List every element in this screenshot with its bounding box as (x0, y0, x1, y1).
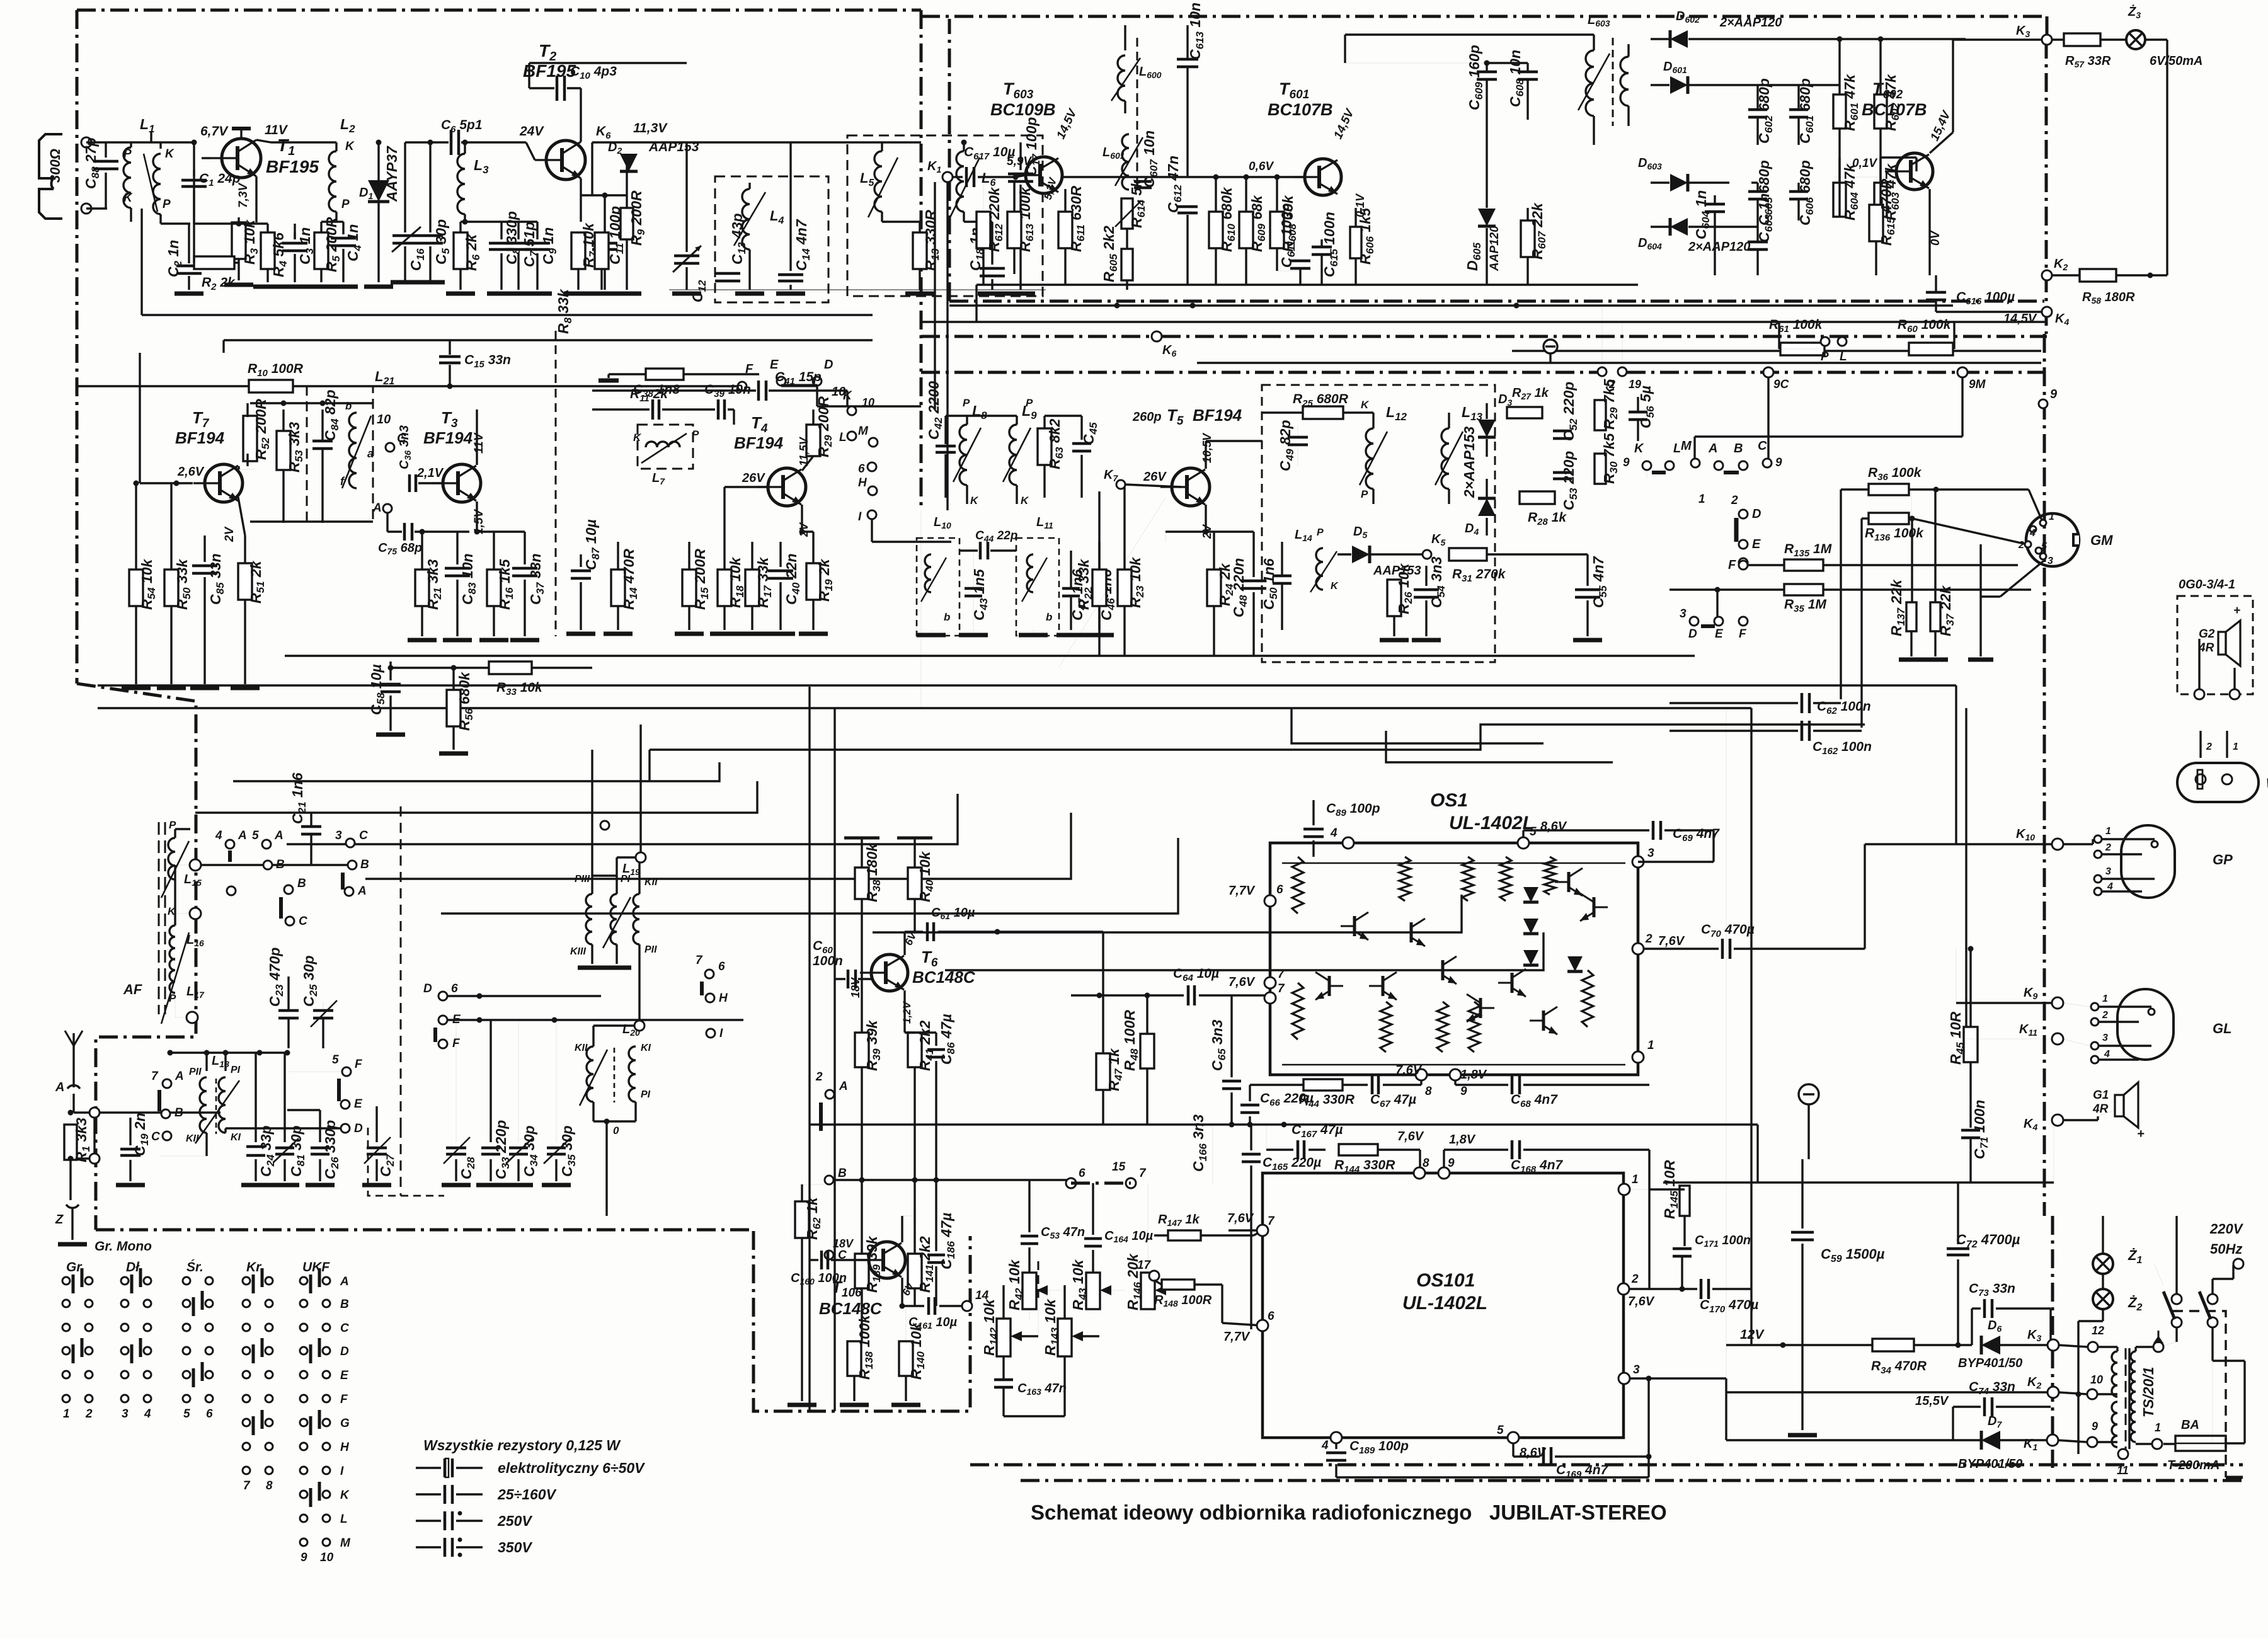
K4 terminal right (2042, 307, 2052, 317)
C41 15p (757, 381, 760, 401)
svg-text:A: A (175, 1070, 184, 1083)
C189 100p (1335, 1443, 1337, 1449)
svg-text:300Ω: 300Ω (47, 149, 63, 183)
OS1 box (1270, 843, 1638, 1075)
R609 68k (1239, 212, 1253, 248)
node base row (193, 142, 195, 224)
svg-text:K: K (1361, 399, 1370, 411)
C611 100n (1290, 260, 1310, 263)
vertical gnd wire (1979, 544, 1981, 656)
contacts D 6 E F col (438, 992, 447, 1000)
L21 coil (349, 413, 357, 488)
svg-text:Schemat ideowy odbiornika radi: Schemat ideowy odbiornika radiofoniczneg… (1031, 1501, 1667, 1524)
svg-text:C85 33n: C85 33n (207, 553, 226, 605)
svg-text:PII: PII (644, 944, 657, 955)
T3 base cap C36 3n3 (408, 474, 411, 492)
OS101 pin1 (1618, 1184, 1630, 1195)
svg-text:R44 330R: R44 330R (1299, 1092, 1355, 1109)
wires L8L9 (966, 416, 968, 425)
dashed box around C27 (368, 1128, 444, 1196)
C72 4700u (1957, 1183, 1959, 1244)
transistor T4 BF194 (757, 468, 806, 506)
svg-text:R39 39k: R39 39k (864, 1019, 883, 1071)
lamp Z3 (2126, 30, 2145, 49)
svg-text:R601 47k: R601 47k (1841, 74, 1860, 131)
wire to K10 (1864, 844, 1865, 949)
svg-text:17: 17 (1137, 1259, 1152, 1272)
C53 47n (1028, 1180, 1030, 1232)
long bus B (98, 684, 1956, 686)
svg-text:A: A (55, 1080, 64, 1094)
C54 3n3 (1425, 566, 1427, 586)
transistor T3 BF194 (432, 464, 481, 502)
svg-text:B: B (175, 1106, 183, 1120)
svg-text:P: P (1026, 397, 1033, 409)
OS1 pin9 (1450, 1069, 1461, 1080)
mid junction (186, 1012, 198, 1023)
svg-text:D: D (423, 982, 432, 995)
transformer TS-20-1 (2088, 1342, 2098, 1352)
svg-text:25÷160V: 25÷160V (497, 1486, 557, 1503)
R603 47k (1874, 183, 1887, 217)
bottom dash right (2226, 1476, 2243, 1479)
R26 10k (1387, 580, 1401, 616)
svg-text:K: K (1634, 442, 1644, 455)
C171 100n (1673, 1247, 1692, 1251)
svg-text:C160 100n: C160 100n (791, 1271, 847, 1286)
svg-text:BA: BA (2181, 1418, 2199, 1432)
svg-text:C164 10µ: C164 10µ (1104, 1229, 1154, 1244)
fuse BA (2175, 1436, 2226, 1451)
svg-text:E: E (340, 1369, 349, 1382)
transistor T7 BF194 (193, 464, 243, 502)
svg-text:1: 1 (1698, 493, 1705, 506)
C42 2200 (936, 445, 956, 448)
R22 33k (1092, 570, 1106, 606)
capacitor C8 330p (500, 222, 502, 239)
lamps Z1 Z2 (2093, 1254, 2113, 1274)
capacitor C1 24p (193, 170, 195, 176)
capacitor C5 30p (429, 142, 431, 232)
svg-text:4: 4 (215, 829, 222, 842)
OS1 pin4 (1343, 837, 1354, 849)
svg-text:C609 160p: C609 160p (1466, 45, 1485, 110)
svg-text:B: B (276, 858, 285, 871)
pot R142 10k (997, 1319, 1011, 1356)
C58 10u (389, 661, 391, 680)
svg-text:C43 1n5: C43 1n5 (971, 568, 990, 621)
wire 9 terminal (2039, 399, 2047, 408)
K4 terminal (2052, 1114, 2063, 1126)
svg-text:C24 33p: C24 33p (258, 1125, 277, 1177)
svg-text:9: 9 (1775, 456, 1782, 469)
svg-text:1: 1 (2049, 512, 2054, 522)
svg-text:100n: 100n (813, 954, 843, 968)
svg-text:R36 100k: R36 100k (1868, 466, 1922, 483)
svg-text:L: L (1840, 350, 1847, 364)
C616 100u (1926, 291, 1946, 294)
svg-text:R4 5k6: R4 5k6 (270, 232, 289, 277)
R52 200R (243, 416, 257, 461)
svg-text:6: 6 (1276, 883, 1283, 896)
right vertical pair (1955, 685, 1957, 844)
T1 emitter down (255, 176, 257, 222)
svg-text:C86 47µ: C86 47µ (938, 1014, 957, 1065)
contacts 5F E (342, 1067, 351, 1076)
primary terminals (2153, 1342, 2163, 1352)
svg-text:OS101: OS101 (1416, 1270, 1475, 1291)
antenna terminals (81, 137, 91, 147)
R611 630R (1058, 212, 1072, 248)
svg-text:R15 200R: R15 200R (692, 549, 711, 610)
R31 270k (1449, 548, 1487, 561)
svg-text:R30 7k5: R30 7k5 (1601, 432, 1620, 484)
svg-text:50Hz: 50Hz (2210, 1241, 2242, 1257)
K2 terminal ps (2047, 1387, 2059, 1398)
ferrite rod dashes (158, 822, 160, 1014)
C50 1n6 (1273, 575, 1291, 578)
R602 47k (1874, 94, 1887, 129)
svg-text:R43 10k: R43 10k (1070, 1259, 1089, 1310)
contacts B C col (284, 885, 293, 894)
svg-text:1,2V: 1,2V (901, 1000, 913, 1024)
R34 470R (1872, 1339, 1914, 1351)
inductor L1 (123, 147, 131, 208)
svg-text:1: 1 (1647, 1039, 1654, 1052)
B row (834, 1179, 1071, 1181)
D604 diode (1651, 226, 1669, 227)
svg-text:7: 7 (1139, 1167, 1147, 1180)
L13 coil (1441, 428, 1449, 489)
svg-text:D: D (824, 358, 833, 372)
svg-text:C162 100n: C162 100n (1813, 740, 1872, 757)
contacts 4A 5A (226, 840, 234, 849)
svg-text:C34 30p: C34 30p (521, 1125, 540, 1177)
L18 wires (205, 1053, 207, 1071)
capacitor C18 1n (991, 222, 993, 265)
emitter T2 (580, 178, 581, 222)
Z terminal (66, 1205, 79, 1208)
svg-text:L: L (1673, 442, 1681, 455)
svg-text:A: A (372, 501, 382, 515)
R33 10k (489, 661, 532, 674)
R16 1k5 (487, 570, 501, 606)
svg-text:C36 3n3: C36 3n3 (398, 425, 413, 469)
T2 top wire (529, 62, 687, 64)
R135 1M (1784, 559, 1823, 571)
9C 9M terms (1763, 367, 1773, 377)
svg-text:R35 1M: R35 1M (1784, 597, 1826, 614)
svg-text:C9 1n: C9 1n (540, 227, 559, 265)
transistor T1 BF195 (210, 139, 261, 178)
frame outer left dash-dot (76, 10, 79, 684)
T5 emitter (1205, 505, 1206, 532)
svg-text:KI: KI (231, 1132, 241, 1143)
svg-text:C53 47n: C53 47n (1041, 1225, 1085, 1240)
svg-text:18V: 18V (849, 976, 862, 998)
K10 terminal (2052, 839, 2063, 850)
pot R42 10k (1022, 1273, 1036, 1309)
svg-text:A: A (1708, 442, 1717, 455)
svg-text:R57 33R: R57 33R (2065, 54, 2111, 69)
svg-text:2: 2 (85, 1407, 93, 1421)
svg-text:R22 33k: R22 33k (1075, 558, 1094, 610)
C49 82p (1288, 436, 1308, 439)
frame divider FM/600 vertical (920, 10, 923, 510)
svg-text:6V/50mA: 6V/50mA (2150, 54, 2203, 68)
L600 coil (1118, 55, 1125, 101)
svg-text:4: 4 (1321, 1439, 1329, 1452)
svg-text:A: A (274, 829, 283, 842)
frame right rail (2046, 16, 2049, 40)
dash rails near pots (1038, 1260, 1039, 1298)
contacts F E D top mid (600, 821, 609, 830)
svg-text:BF194: BF194 (1193, 406, 1242, 425)
OS101 pin4 (1331, 1432, 1342, 1443)
svg-text:F: F (452, 1037, 461, 1050)
wires L21 (250, 402, 373, 404)
C69 4n7 top (1652, 821, 1655, 840)
svg-text:8: 8 (1423, 1157, 1429, 1170)
R601 47k (1833, 94, 1846, 129)
svg-text:R607 22k: R607 22k (1529, 202, 1548, 260)
C165 220u (1250, 1125, 1252, 1150)
R139 39k (855, 1254, 869, 1288)
GM connector circle (2026, 513, 2079, 566)
R24 2k (1207, 570, 1221, 606)
svg-text:B: B (838, 1167, 847, 1180)
C606 680p (1789, 190, 1808, 193)
svg-text:R148 100R: R148 100R (1154, 1293, 1212, 1309)
svg-text:9: 9 (2092, 1420, 2098, 1433)
R57 33R (2064, 33, 2100, 46)
terminal 14 (962, 1301, 972, 1311)
T1 collector wire (202, 157, 210, 159)
transistor T601 BC107B (1293, 159, 1341, 195)
svg-text:11V: 11V (265, 123, 289, 137)
svg-text:BF194: BF194 (175, 428, 225, 447)
F contact (1739, 561, 1748, 570)
R138 100k (847, 1341, 861, 1376)
legend electrolytic (416, 1467, 441, 1469)
svg-text:5: 5 (2041, 541, 2047, 552)
A term (383, 504, 392, 513)
svg-text:R38 180k: R38 180k (864, 843, 883, 902)
svg-text:8: 8 (266, 1479, 273, 1492)
R56 680k (447, 690, 461, 726)
R29b 7k5 (1595, 400, 1606, 430)
svg-text:9: 9 (1460, 1085, 1467, 1098)
C607 10n (1134, 180, 1152, 183)
L8 coil (959, 425, 967, 485)
frame bottom left long (96, 1228, 753, 1232)
svg-text:C616 100µ: C616 100µ (1956, 290, 2015, 307)
svg-text:350V: 350V (498, 1539, 532, 1555)
R145 10R (1680, 1186, 1690, 1216)
svg-text:4R: 4R (2092, 1102, 2109, 1116)
junction diamonds (89, 1108, 100, 1118)
svg-text:C53 220p: C53 220p (1561, 451, 1579, 510)
svg-text:2: 2 (1631, 1273, 1639, 1286)
svg-text:2×AAP153: 2×AAP153 (1461, 427, 1477, 498)
dashed box L5 L6 (847, 135, 1043, 296)
switch contacts F E D 10 (738, 382, 747, 391)
svg-text:2: 2 (2018, 540, 2024, 551)
svg-text:5: 5 (1530, 825, 1537, 839)
transformer coils (2112, 1351, 2117, 1397)
capacitor C11 100p (604, 195, 605, 239)
L12 coil (1366, 428, 1373, 489)
wire from D down (817, 405, 921, 407)
svg-text:K: K (165, 147, 175, 161)
switch 1 (2172, 1294, 2182, 1304)
R613 100k (1007, 212, 1021, 248)
C21 1n6 (301, 825, 321, 828)
inductor L6 (956, 151, 964, 212)
legend 250V (416, 1520, 441, 1521)
svg-text:R29 200R: R29 200R (815, 396, 834, 457)
OS1 pin1 (1632, 1051, 1644, 1063)
D605 AAP120 (1486, 189, 1487, 208)
svg-text:PIII: PIII (575, 874, 590, 885)
svg-text:R612 220k: R612 220k (986, 186, 1005, 252)
svg-text:R140 10k: R140 10k (908, 1322, 927, 1380)
svg-text:3: 3 (1680, 607, 1687, 621)
R147 1k (1168, 1230, 1201, 1240)
svg-text:D: D (1752, 507, 1761, 521)
wire to T602 (1881, 156, 1916, 158)
svg-text:1,8V: 1,8V (1449, 1133, 1476, 1147)
svg-text:C73 33n: C73 33n (1969, 1281, 2015, 1298)
frame 600-block box (948, 19, 951, 301)
contacts 7 6 H I right (705, 970, 714, 978)
out to 10 C (386, 443, 394, 452)
R53 3k3 (277, 431, 290, 470)
svg-text:L: L (340, 1513, 348, 1526)
svg-text:PI: PI (641, 1089, 651, 1100)
svg-text:C41 15p: C41 15p (775, 370, 822, 387)
svg-text:OS1: OS1 (1430, 790, 1468, 811)
svg-text:+: + (2137, 1127, 2145, 1141)
node C6 out (462, 140, 468, 146)
dashed box L4 (715, 176, 828, 302)
svg-text:B: B (340, 1298, 349, 1311)
R610 680k (1209, 212, 1223, 248)
svg-text:R27 1k: R27 1k (1512, 386, 1549, 401)
R141 2k2 (908, 1254, 922, 1288)
svg-text:R609 68k: R609 68k (1249, 195, 1268, 252)
grounds under discriminator (931, 630, 932, 635)
svg-text:R37 22k: R37 22k (1937, 585, 1956, 636)
svg-text:K: K (340, 1489, 350, 1502)
svg-text:GL: GL (2213, 1021, 2232, 1036)
svg-text:C171 100n: C171 100n (1695, 1234, 1751, 1249)
svg-text:KI: KI (641, 1043, 651, 1053)
svg-text:R33 10k: R33 10k (496, 680, 543, 697)
K7 term (1116, 480, 1125, 489)
ratio det dashed box (1262, 385, 1495, 662)
svg-text:5: 5 (252, 829, 259, 842)
dash-dot row 591 (921, 371, 1598, 374)
svg-text:R142 10k: R142 10k (981, 1298, 1000, 1356)
svg-text:C61 10µ: C61 10µ (931, 906, 975, 921)
L18 transformer (200, 1077, 207, 1133)
R44 330R (1303, 1079, 1343, 1091)
T6 emitter (903, 990, 905, 1033)
terminal 17 (1149, 1271, 1159, 1281)
C19 2n (129, 1118, 131, 1145)
OS101 pin5 (1508, 1432, 1519, 1443)
svg-text:K: K (633, 432, 642, 444)
svg-text:C167 47µ: C167 47µ (1291, 1123, 1343, 1140)
C26 330p (311, 1147, 329, 1150)
svg-text:1: 1 (2105, 826, 2111, 837)
minus term row (1543, 340, 1557, 353)
OS101 pin3 (1618, 1373, 1630, 1384)
R41 2k2 (908, 1033, 922, 1067)
resistor R8 33k (595, 232, 609, 269)
legend 25-160V (416, 1493, 441, 1495)
1,8V wire to C168 (1443, 1150, 1445, 1173)
svg-text:C70 470µ: C70 470µ (1701, 922, 1755, 939)
core dash L600 (1137, 38, 1138, 189)
D7 BYP401-50 (1981, 1431, 2000, 1450)
C167 47u (1297, 1140, 1300, 1159)
OS101 box (1263, 1173, 1624, 1438)
R140 10k (899, 1341, 913, 1376)
K2 terminal right (2042, 270, 2052, 280)
svg-text:7,6V: 7,6V (1658, 934, 1685, 948)
svg-text:C83 10n: C83 10n (459, 553, 478, 605)
C603 1n (1748, 241, 1768, 244)
resistor R9 200R (621, 208, 633, 239)
svg-text:6,7V: 6,7V (200, 124, 229, 139)
svg-text:C72 4700µ: C72 4700µ (1956, 1232, 2020, 1250)
svg-text:R21 3k3: R21 3k3 (425, 559, 444, 610)
diode D1 AAYP37 (377, 142, 379, 183)
svg-text:C611 100n: C611 100n (1278, 203, 1297, 268)
svg-text:K: K (1021, 495, 1029, 507)
L21 dashed box (307, 386, 373, 522)
left col from FM bottom (141, 209, 142, 315)
C44 22p (979, 542, 982, 559)
R48 100R (1140, 1034, 1154, 1068)
R28 1k (1520, 491, 1555, 504)
C62 100n (1801, 693, 1804, 713)
svg-text:C21 1n6: C21 1n6 (289, 772, 308, 824)
WP connector (2177, 763, 2259, 802)
svg-text:0V: 0V (1929, 230, 1942, 246)
L20 transformer (587, 1046, 593, 1102)
svg-text:B: B (1734, 442, 1743, 455)
R58 180R (2080, 269, 2116, 282)
transistor T5 BF194 (1160, 468, 1210, 506)
svg-text:C75 68p: C75 68p (378, 541, 422, 556)
svg-text:R611 630R: R611 630R (1068, 186, 1087, 252)
svg-text:R610 680k: R610 680k (1218, 186, 1237, 252)
C43 1n5 (965, 587, 982, 590)
C163 47n (994, 1378, 1013, 1382)
C71 100n (1961, 1129, 1980, 1132)
OS1 interior diodes (1523, 887, 1538, 902)
R62 1k (795, 1201, 809, 1238)
T7 collector (238, 466, 239, 469)
svg-text:C54 3n3: C54 3n3 (1428, 556, 1447, 608)
L19 coils (586, 894, 592, 944)
svg-text:1: 1 (2102, 994, 2108, 1004)
svg-text:0: 0 (613, 1125, 619, 1137)
C24 33p (255, 1053, 256, 1142)
